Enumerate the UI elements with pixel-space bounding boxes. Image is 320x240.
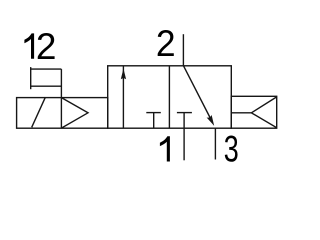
blocked port 3 left cell T bar	[146, 112, 161, 114]
flow arrow 1 to 2 head	[121, 69, 126, 80]
solenoid/pilot divider	[60, 69, 62, 128]
pilot port 12 top line	[31, 68, 62, 70]
pilot port 12 bottom line	[31, 85, 62, 87]
air return triangle	[251, 97, 276, 128]
port 1 line (T stem continuing below body)	[183, 113, 185, 161]
solenoid box	[17, 98, 108, 129]
air return pilot line	[231, 112, 251, 114]
svg-text:2: 2	[156, 23, 176, 64]
port label 1	[160, 136, 170, 161]
pilot triangle	[61, 98, 88, 129]
air return box	[231, 96, 276, 128]
blocked port 1 right cell T bar	[177, 112, 192, 114]
svg-text:2: 2	[36, 26, 57, 67]
flow path 2 to 3 arrowhead	[207, 115, 215, 126]
flow arrow 1 to 2 (left cell) stem	[122, 66, 124, 128]
port 3 line	[214, 128, 216, 159]
blocked port 3 left cell T stem	[153, 113, 155, 129]
port label 12 digit 1	[24, 33, 34, 58]
port 2 line	[182, 34, 184, 66]
flow path 2 to 3 diagonal	[184, 66, 213, 122]
svg-text:3: 3	[224, 128, 239, 169]
solenoid coil diagonal	[32, 97, 46, 127]
valve body	[108, 66, 232, 128]
valve body position divider	[168, 66, 170, 128]
pilot port 12 left tick	[30, 67, 32, 89]
